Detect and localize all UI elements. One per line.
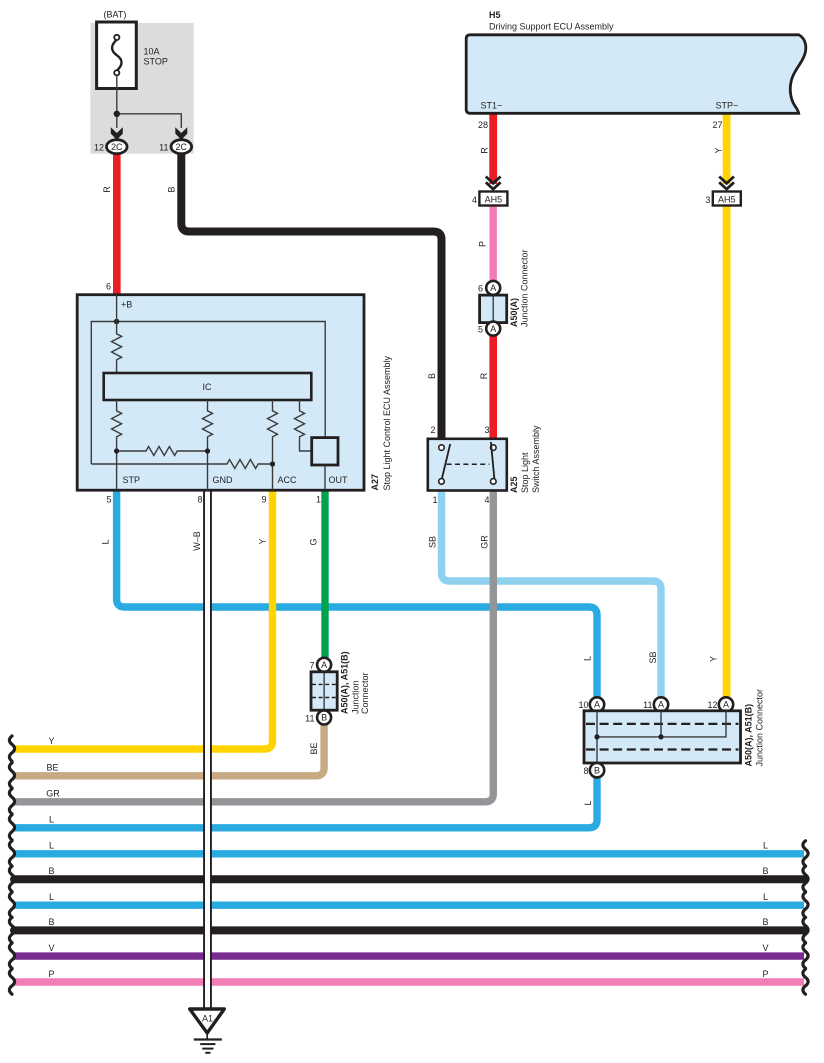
resistor STP column <box>112 400 122 490</box>
switch contact circles <box>439 445 445 451</box>
node STP <box>114 448 119 453</box>
pin 10 A circle <box>590 697 604 711</box>
wire Y from AH5 to junction pin 12 <box>723 205 731 699</box>
connector oval 12 2C <box>107 140 128 154</box>
switch lever right <box>491 442 495 479</box>
svg-text:11: 11 <box>159 143 168 153</box>
bus wire V full-width <box>14 952 804 959</box>
svg-text:A25: A25 <box>509 476 519 493</box>
svg-text:BE: BE <box>309 742 319 754</box>
svg-text:BE: BE <box>46 763 58 773</box>
svg-text:SB: SB <box>648 651 658 663</box>
wire L from junction pin 8 to left edge bus <box>14 776 597 828</box>
svg-text:8: 8 <box>583 766 588 776</box>
svg-text:2: 2 <box>430 425 435 435</box>
svg-text:OUT: OUT <box>329 475 349 485</box>
svg-text:L: L <box>49 815 54 825</box>
mechanical link dashed <box>447 463 490 465</box>
svg-text:A: A <box>490 324 496 334</box>
bus wire L2 full-width <box>14 902 804 909</box>
svg-text:Junction Connector: Junction Connector <box>520 249 530 327</box>
svg-text:Y: Y <box>714 147 724 153</box>
resistor ACC column <box>268 400 278 490</box>
wire G from A27 OUT pin 1 to junction pin 7 <box>321 490 328 660</box>
node GND <box>205 448 210 453</box>
svg-text:6: 6 <box>478 284 483 294</box>
svg-text:A50(A): A50(A) <box>509 298 519 327</box>
svg-text:B: B <box>48 866 54 876</box>
svg-text:H5: H5 <box>489 10 501 20</box>
svg-text:R: R <box>479 372 489 379</box>
svg-text:Y: Y <box>258 538 268 544</box>
svg-text:GND: GND <box>213 475 234 485</box>
wire L from A27 STP pin 5 to junction pin 10 <box>117 490 597 699</box>
connector arrows into AH5 left <box>486 177 501 190</box>
svg-text:W–B: W–B <box>192 531 202 551</box>
junction node <box>114 111 120 117</box>
svg-text:Y: Y <box>709 656 719 662</box>
svg-text:P: P <box>48 969 54 979</box>
svg-text:AH5: AH5 <box>485 195 503 205</box>
lower rail with resistor to ACC <box>91 460 272 469</box>
svg-text:B: B <box>762 866 768 876</box>
svg-text:G: G <box>309 538 319 545</box>
fuse holder gray block <box>90 23 193 154</box>
svg-text:+B: +B <box>121 300 132 310</box>
ECU H5 Driving Support ECU Assembly box <box>466 35 806 114</box>
OUT block <box>312 438 338 465</box>
pin 7 A circle <box>317 658 331 672</box>
wire Y from A27 ACC pin 9 to left edge bus <box>14 490 273 749</box>
svg-text:Junction Connector: Junction Connector <box>755 689 765 767</box>
connector 4 AH5 <box>479 192 507 206</box>
svg-text:3: 3 <box>705 195 710 205</box>
svg-text:3: 3 <box>484 425 489 435</box>
svg-text:STOP: STOP <box>144 57 168 67</box>
svg-text:11: 11 <box>305 714 314 724</box>
svg-text:A: A <box>594 700 600 710</box>
wire R from fuse 2C pin 12 to A27 +B pin 6 <box>113 151 121 295</box>
fuse element symbol <box>112 40 121 71</box>
connector arrows into AH5 right <box>719 177 734 190</box>
svg-text:ST1−: ST1− <box>481 101 503 111</box>
svg-text:B: B <box>427 373 437 379</box>
svg-text:Junction: Junction <box>351 680 361 714</box>
svg-text:STP−: STP− <box>716 101 739 111</box>
svg-text:4: 4 <box>472 195 477 205</box>
svg-text:P: P <box>762 969 768 979</box>
svg-text:Driving Support ECU Assembly: Driving Support ECU Assembly <box>489 22 614 32</box>
bus wire B full-width <box>14 875 804 883</box>
svg-text:AH5: AH5 <box>718 195 736 205</box>
svg-text:Stop Light: Stop Light <box>520 452 530 493</box>
svg-text:5: 5 <box>478 324 483 334</box>
connector oval 11 2C <box>171 140 192 154</box>
svg-text:11: 11 <box>643 700 652 710</box>
svg-text:5: 5 <box>106 495 111 505</box>
svg-text:2C: 2C <box>176 142 188 152</box>
svg-text:8: 8 <box>197 495 202 505</box>
arrowhead into 11 <box>175 127 187 140</box>
svg-text:A1: A1 <box>202 1014 213 1024</box>
node ACC <box>270 461 275 466</box>
resistor column 4 <box>295 400 312 451</box>
svg-text:4: 4 <box>484 495 489 505</box>
svg-text:1: 1 <box>432 495 437 505</box>
bus wire P full-width <box>14 978 804 985</box>
svg-text:V: V <box>762 943 768 953</box>
svg-text:2C: 2C <box>111 142 123 152</box>
svg-text:A27: A27 <box>370 474 380 491</box>
ECU A27 box <box>77 295 364 491</box>
svg-text:10: 10 <box>578 700 588 710</box>
fuse 10A STOP box <box>97 22 137 89</box>
svg-text:(BAT): (BAT) <box>104 10 127 20</box>
wire B from fuse 2C pin 11 to switch pin 2 <box>181 151 441 439</box>
switch A25 body <box>428 439 507 491</box>
wire SB from switch pin 1 to junction pin 11 <box>442 490 662 699</box>
internal pin links <box>597 711 726 763</box>
svg-text:P: P <box>478 241 488 247</box>
svg-text:R: R <box>480 147 490 154</box>
wire Y from H5 STP- pin 27 to AH5 <box>723 113 731 184</box>
arrowhead into 12 <box>111 127 123 140</box>
wire W-B from A27 GND pin 8 to ground A1 <box>203 490 212 1009</box>
svg-text:STP: STP <box>123 475 141 485</box>
svg-text:Connector: Connector <box>360 672 370 714</box>
wire R from H5 ST1- pin 28 to AH5 <box>489 113 497 184</box>
svg-text:6: 6 <box>106 282 111 292</box>
connector 3 AH5 <box>713 192 741 206</box>
svg-text:B: B <box>594 765 600 775</box>
svg-text:IC: IC <box>203 382 213 392</box>
resistor R-top (+B to IC) <box>112 295 122 373</box>
ground bars <box>194 1038 222 1040</box>
svg-text:12: 12 <box>94 143 104 153</box>
pin 11 B circle <box>317 711 331 725</box>
bus wire L full-width <box>14 850 804 857</box>
svg-text:B: B <box>762 917 768 927</box>
right continuation marks <box>803 841 808 994</box>
pin 8 B circle <box>590 763 604 777</box>
svg-text:A: A <box>490 283 496 293</box>
svg-text:L: L <box>49 892 54 902</box>
svg-text:B: B <box>321 713 327 723</box>
svg-text:A: A <box>658 700 664 710</box>
pin 12 A circle <box>719 697 733 711</box>
svg-text:28: 28 <box>478 120 488 130</box>
svg-text:GR: GR <box>46 789 60 799</box>
wire branch to pin 11 <box>117 114 182 128</box>
svg-text:27: 27 <box>712 120 722 130</box>
svg-text:10A: 10A <box>144 47 160 57</box>
svg-text:A50(A), A51(B): A50(A), A51(B) <box>340 651 350 714</box>
svg-text:1: 1 <box>316 495 321 505</box>
svg-text:A: A <box>723 700 729 710</box>
svg-text:R: R <box>102 186 112 193</box>
bus wire B2 full-width <box>14 926 804 934</box>
svg-text:L: L <box>101 539 111 544</box>
svg-text:ACC: ACC <box>278 475 298 485</box>
svg-text:L: L <box>583 656 593 661</box>
pin 6 A circle <box>486 281 500 295</box>
svg-text:L: L <box>763 841 768 851</box>
svg-text:Switch Assembly: Switch Assembly <box>531 425 541 493</box>
svg-text:L: L <box>49 841 54 851</box>
svg-text:L: L <box>763 892 768 902</box>
wire BE from junction pin 11B to left edge bus <box>14 724 324 776</box>
svg-text:Stop Light Control ECU Assembl: Stop Light Control ECU Assembly <box>382 355 392 490</box>
svg-text:A50(A), A51(B): A50(A), A51(B) <box>744 704 754 767</box>
svg-text:A: A <box>321 660 327 670</box>
svg-text:Y: Y <box>48 736 54 746</box>
ground stem <box>206 1033 208 1040</box>
wire OUT block to pin <box>324 465 326 490</box>
junction connector body <box>311 672 337 710</box>
svg-text:9: 9 <box>261 495 266 505</box>
ground triangle A1 <box>190 1009 225 1033</box>
IC box <box>104 373 312 400</box>
svg-text:12: 12 <box>707 700 717 710</box>
resistor GND column <box>203 400 213 490</box>
switch lever left <box>442 444 450 479</box>
junction connector body <box>480 295 507 323</box>
svg-text:B: B <box>167 186 177 192</box>
left continuation marks <box>9 736 14 994</box>
svg-text:L: L <box>583 800 593 805</box>
wire to pin 12 <box>116 114 118 128</box>
pin 5 A circle <box>486 322 500 336</box>
junction connector body <box>584 711 741 763</box>
svg-text:7: 7 <box>309 660 314 670</box>
wire fuse to junction node <box>116 75 118 113</box>
wire P from AH5 to junction pin 6A <box>490 205 497 283</box>
svg-text:SB: SB <box>428 536 438 548</box>
wire R from junction pin 5A to switch pin 3 <box>489 334 497 439</box>
svg-text:GR: GR <box>480 535 490 549</box>
horizontal resistor STP-GND <box>117 447 208 456</box>
node +B <box>114 319 120 325</box>
svg-text:B: B <box>48 917 54 927</box>
svg-text:V: V <box>48 943 54 953</box>
inner rail top <box>91 322 325 465</box>
wire GR from switch pin 4 to left edge bus <box>14 490 493 802</box>
pin 11 A circle <box>654 697 668 711</box>
